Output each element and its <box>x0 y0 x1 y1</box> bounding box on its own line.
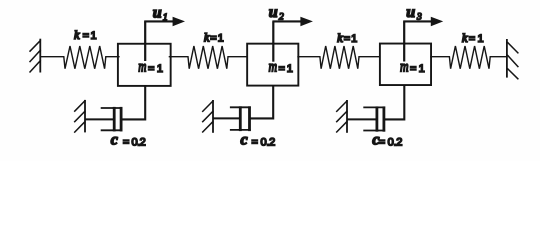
svg-text:= 0.2: = 0.2 <box>123 137 146 149</box>
damper wall 1 <box>74 100 85 133</box>
label k1 = 1 <box>74 28 97 42</box>
left wall <box>30 39 41 73</box>
label u1 <box>153 4 168 23</box>
svg-text:c: c <box>111 132 118 149</box>
arrow u1 <box>144 17 185 61</box>
label u2 <box>269 4 284 22</box>
wire mass1 to damper1 <box>122 86 145 120</box>
svg-text:c: c <box>241 132 248 149</box>
svg-text:2: 2 <box>279 12 284 22</box>
damper C3 <box>347 106 385 131</box>
damper wall 2 <box>202 100 213 133</box>
spring k4 <box>430 46 507 69</box>
svg-text:= 1: = 1 <box>410 63 425 75</box>
svg-text:= 1: = 1 <box>279 63 293 75</box>
wire mass3 to damper3 <box>385 85 404 119</box>
svg-text:= 1: = 1 <box>344 33 357 45</box>
label k2 = 1 <box>204 31 224 45</box>
svg-text:= 1: = 1 <box>148 63 163 75</box>
svg-text:k: k <box>74 28 80 42</box>
label c1 = 0.2 <box>111 132 146 149</box>
svg-text:= 1: = 1 <box>210 33 223 45</box>
svg-text:= 0.2: = 0.2 <box>379 137 403 149</box>
arrow u2 <box>272 17 313 62</box>
svg-text:k: k <box>204 31 210 45</box>
arrow u3 <box>403 17 443 62</box>
label c3 = 0.2 <box>372 132 402 149</box>
svg-text:m: m <box>138 59 146 76</box>
label k4 = 1 <box>462 31 484 45</box>
mass m2 box <box>247 44 298 86</box>
label c2 = 0.2 <box>241 132 276 149</box>
spring k1 <box>40 46 119 69</box>
spring k3 <box>297 46 380 69</box>
mass m1 box <box>118 44 171 86</box>
svg-text:= 0.2: = 0.2 <box>252 137 276 149</box>
svg-text:= 1: = 1 <box>469 33 484 45</box>
svg-text:3: 3 <box>416 12 422 22</box>
svg-text:u: u <box>406 4 415 21</box>
svg-text:u: u <box>269 4 278 21</box>
wire mass2 to damper2 <box>251 86 274 119</box>
spring k2 <box>169 46 248 69</box>
damper C2 <box>213 106 251 131</box>
label m2 = 1 <box>269 58 293 75</box>
right wall <box>507 39 519 79</box>
label m3 = 1 <box>400 59 425 76</box>
label m1 = 1 <box>138 59 163 76</box>
svg-text:u: u <box>153 4 162 21</box>
label k3 = 1 <box>337 31 357 45</box>
damper C1 <box>85 107 122 131</box>
label u3 <box>406 4 422 23</box>
svg-text:k: k <box>337 31 343 45</box>
mass m3 box <box>380 44 431 86</box>
damper wall 3 <box>336 100 347 133</box>
svg-text:k: k <box>462 31 468 45</box>
svg-text:1: 1 <box>163 13 168 23</box>
svg-text:= 1: = 1 <box>83 30 97 42</box>
